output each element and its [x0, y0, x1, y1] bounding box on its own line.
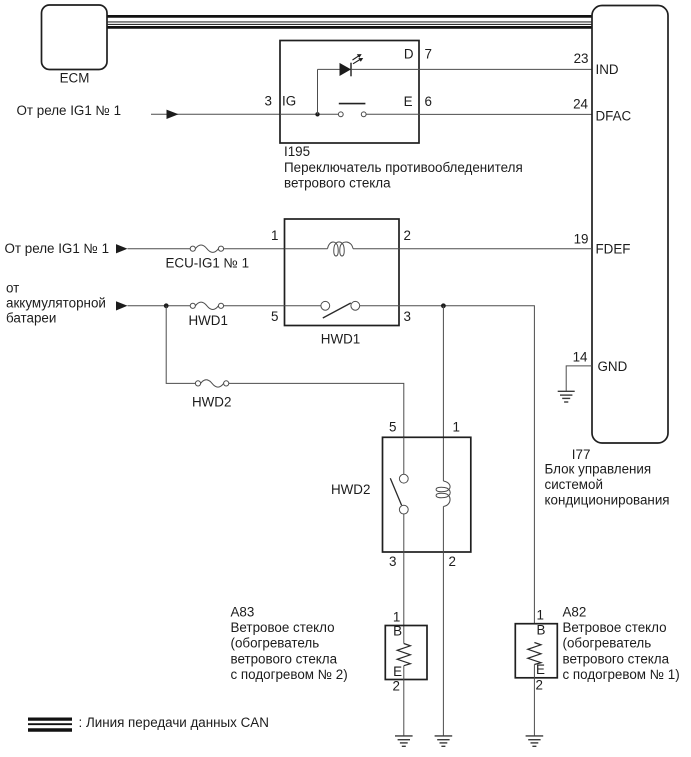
svg-text:B: B [393, 623, 402, 638]
wire arrow to IG pin [151, 110, 280, 119]
wire pin1 to coil [285, 248, 328, 250]
wire junction up to LED [317, 69, 319, 114]
wire contact to E pin [366, 113, 419, 115]
legend CAN bus symbol [28, 719, 72, 730]
svg-text:От реле IG1 № 1: От реле IG1 № 1 [17, 103, 122, 118]
ground (HWD2 coil) [435, 736, 453, 746]
svg-text:батареи: батареи [6, 310, 56, 325]
relay HWD2 box [383, 437, 471, 552]
svg-text:2: 2 [449, 554, 456, 569]
svg-text:ветрового стекла: ветрового стекла [563, 651, 670, 666]
switch contact circles [338, 112, 366, 117]
svg-text:ветрового стекла: ветрового стекла [231, 651, 338, 666]
ground (I77 GND) [558, 391, 575, 402]
svg-text:19: 19 [574, 232, 589, 247]
relay coil HWD1 [328, 242, 354, 256]
ECM box [42, 5, 108, 86]
svg-text:5: 5 [389, 419, 396, 434]
svg-text:(обогреватель: (обогреватель [231, 636, 320, 651]
junction to HWD2 coil [441, 303, 446, 308]
svg-text:A83: A83 [231, 604, 255, 619]
svg-text:A82: A82 [563, 604, 587, 619]
wire A82 to ground [533, 665, 535, 736]
relay HWD1 contacts [321, 301, 360, 310]
wire arrow to fuse [116, 244, 190, 253]
wire coil to pin 2 [353, 248, 399, 250]
wire battery branch down [166, 306, 195, 384]
svg-text:7: 7 [425, 47, 432, 62]
relay coil HWD2 [436, 481, 450, 507]
svg-text:кондиционирования: кондиционирования [545, 493, 670, 508]
svg-text:аккумуляторной: аккумуляторной [6, 295, 106, 310]
heater resistor A83 [397, 644, 410, 666]
svg-text:E: E [404, 94, 413, 109]
svg-text:24: 24 [573, 96, 588, 111]
switch actuator bar [339, 103, 366, 105]
heater resistor A82 [528, 643, 541, 665]
svg-text:DFAC: DFAC [596, 109, 632, 124]
svg-text:FDEF: FDEF [596, 242, 631, 257]
svg-text:1: 1 [453, 419, 460, 434]
svg-text:(обогреватель: (обогреватель [563, 636, 652, 651]
LED emission arrows [353, 54, 364, 64]
wire E to DFAC [419, 113, 592, 115]
wire GND stub [566, 366, 592, 391]
svg-text:D: D [404, 47, 414, 62]
wire pin 2 to FDEF [399, 248, 592, 250]
LED indicator diode [340, 63, 352, 77]
svg-text:ECU-IG1 № 1: ECU-IG1 № 1 [166, 256, 250, 271]
node: от аккумуляторной батареи [6, 280, 106, 325]
svg-text:от: от [6, 280, 19, 295]
svg-text:системой: системой [545, 477, 603, 492]
CAN bus wire [108, 16, 593, 27]
svg-text:Ветровое стекло: Ветровое стекло [231, 620, 335, 635]
svg-text:14: 14 [573, 350, 588, 365]
svg-text:IND: IND [596, 62, 619, 77]
svg-text:1: 1 [537, 607, 544, 622]
fuse HWD1 [190, 302, 223, 309]
svg-text:Блок управления: Блок управления [545, 461, 652, 476]
wire A83 to ground [403, 666, 405, 736]
relay HWD1 switch arm [323, 303, 351, 318]
windshield glass A82 box [515, 624, 557, 678]
svg-text:с подогревом № 1): с подогревом № 1) [563, 667, 680, 682]
svg-text:5: 5 [271, 309, 278, 324]
wire fuse to pin 1 [224, 248, 285, 250]
wire pin 3 to A82 branch [399, 306, 534, 624]
svg-text:HWD1: HWD1 [321, 331, 360, 346]
ground (A82) [526, 736, 544, 746]
svg-text:1: 1 [393, 610, 400, 625]
fuse ECU-IG1 № 1 [190, 245, 223, 252]
wire contact to pin 3 [360, 305, 399, 307]
svg-text:2: 2 [404, 228, 411, 243]
wire arrow battery feed [116, 301, 190, 310]
svg-text:HWD2: HWD2 [192, 395, 231, 410]
wire pin 5 to contact [285, 305, 321, 307]
ground (A83) [395, 736, 413, 746]
wire coil to ground [442, 507, 444, 736]
svg-text:B: B [537, 622, 546, 637]
svg-text:3: 3 [404, 309, 411, 324]
svg-text:I77: I77 [572, 447, 591, 462]
svg-text:GND: GND [598, 359, 628, 374]
svg-text:2: 2 [393, 679, 400, 694]
svg-text:IG: IG [282, 94, 296, 109]
svg-text:Переключатель противообледенит: Переключатель противообледенителя [284, 160, 523, 175]
svg-text:: Линия передачи данных CAN: : Линия передачи данных CAN [79, 715, 269, 730]
relay HWD2 switch arm [390, 478, 401, 505]
junction dot [315, 112, 319, 116]
label I77 [545, 447, 670, 508]
label A83 [231, 604, 348, 682]
svg-text:с подогревом № 2): с подогревом № 2) [231, 667, 348, 682]
relay HWD1 box [285, 219, 400, 326]
svg-text:3: 3 [389, 554, 396, 569]
svg-text:ECM: ECM [60, 71, 90, 86]
svg-text:ветрового стекла: ветрового стекла [284, 176, 391, 191]
svg-text:23: 23 [574, 51, 589, 66]
wire LED cathode to D pin [351, 68, 419, 70]
svg-text:HWD2: HWD2 [331, 482, 370, 497]
wire junction down to HWD2 coil [442, 306, 444, 481]
wire LED anode [318, 68, 341, 70]
svg-text:1: 1 [271, 228, 278, 243]
svg-text:Ветровое стекло: Ветровое стекло [563, 620, 667, 635]
svg-text:6: 6 [425, 94, 432, 109]
wire fuse to pin 5 [224, 305, 285, 307]
wire fuse HWD2 to relay pin 5 [229, 383, 404, 437]
svg-text:От реле IG1 № 1: От реле IG1 № 1 [5, 241, 110, 256]
fuse HWD2 [195, 380, 228, 387]
wire IG to junction [280, 113, 338, 115]
label A82 [563, 604, 680, 682]
wire pin 5 to contact [403, 437, 405, 474]
A/C amplifier I77 box [592, 6, 668, 444]
svg-text:I195: I195 [284, 144, 310, 159]
svg-text:3: 3 [265, 93, 272, 108]
windshield glass A83 box [385, 626, 427, 680]
label I195 [284, 144, 523, 190]
relay HWD2 contacts [399, 474, 408, 514]
wire contact to A83 [403, 514, 405, 644]
wire D to IND [419, 68, 592, 70]
svg-text:2: 2 [536, 677, 543, 692]
switch I195 box [280, 41, 419, 144]
svg-text:E: E [393, 664, 402, 679]
junction battery branch [164, 303, 169, 308]
svg-text:HWD1: HWD1 [189, 313, 228, 328]
